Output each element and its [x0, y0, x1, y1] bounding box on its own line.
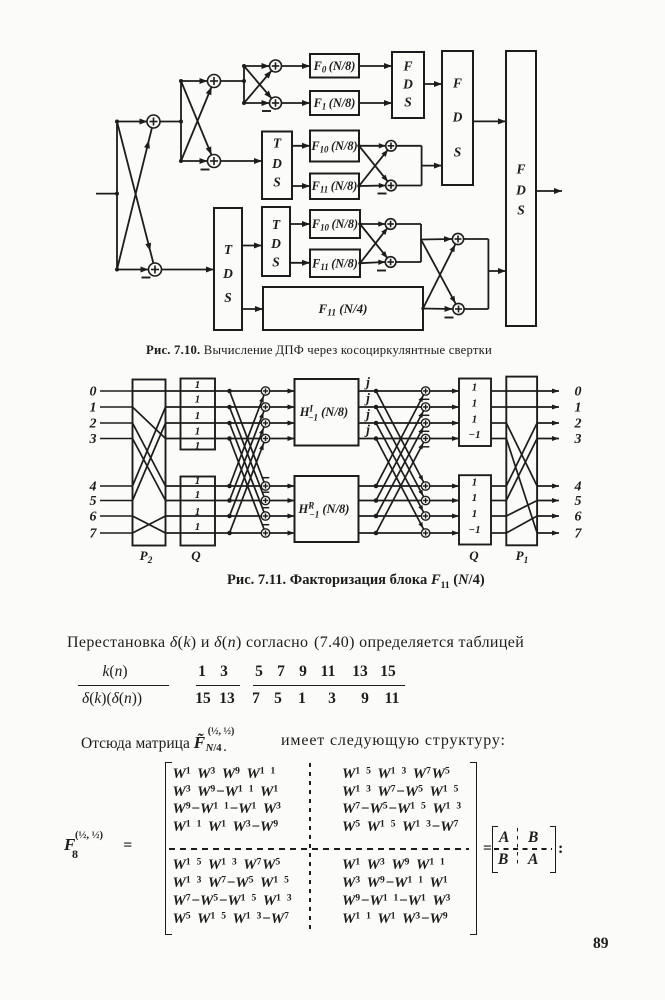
svg-text:P2: P2	[140, 548, 153, 566]
svg-text:1: 1	[195, 410, 201, 422]
svg-text:1: 1	[472, 492, 478, 504]
svg-text:1: 1	[195, 440, 201, 452]
svg-text:S: S	[454, 144, 462, 159]
svg-text:F: F	[402, 58, 412, 73]
svg-text:HI−1 (N/8): HI−1 (N/8)	[299, 404, 348, 423]
svg-text:1: 1	[195, 379, 201, 391]
svg-text:4: 4	[89, 480, 97, 495]
svg-text:6: 6	[575, 510, 582, 525]
svg-text:P1: P1	[516, 548, 529, 566]
svg-text:S: S	[273, 174, 281, 189]
svg-text:2: 2	[574, 417, 582, 432]
svg-text:7: 7	[575, 527, 583, 542]
svg-text:F11 (N/4): F11 (N/4)	[318, 301, 368, 319]
svg-text:Q: Q	[469, 548, 479, 563]
svg-text:7: 7	[90, 527, 98, 542]
svg-text:D: D	[222, 266, 233, 281]
svg-text:3: 3	[574, 432, 582, 447]
svg-text:D: D	[270, 236, 281, 251]
svg-text:6: 6	[90, 510, 97, 525]
svg-text:2: 2	[89, 417, 97, 432]
svg-text:S: S	[404, 94, 412, 109]
svg-text:Q: Q	[191, 548, 201, 563]
svg-text:−1: −1	[468, 524, 480, 536]
svg-text:F: F	[515, 161, 525, 176]
svg-text:4: 4	[574, 480, 582, 495]
svg-text:S: S	[272, 254, 280, 269]
svg-text:0: 0	[90, 385, 97, 400]
svg-text:1: 1	[472, 398, 478, 410]
svg-text:1: 1	[575, 401, 582, 416]
svg-text:1: 1	[195, 521, 201, 533]
svg-text:F11 (N/8): F11 (N/8)	[311, 179, 358, 195]
svg-text:S: S	[517, 202, 525, 217]
svg-text:j: j	[364, 391, 370, 406]
svg-text:S: S	[224, 290, 232, 305]
svg-text:F10 (N/8): F10 (N/8)	[310, 139, 357, 155]
svg-text:j: j	[364, 422, 370, 437]
svg-text:5: 5	[575, 494, 582, 509]
svg-text:F10 (N/8): F10 (N/8)	[311, 217, 358, 233]
svg-text:D: D	[271, 156, 282, 171]
svg-text:1: 1	[472, 508, 478, 520]
svg-text:1: 1	[195, 506, 201, 518]
svg-text:D: D	[515, 182, 526, 197]
svg-text:1: 1	[195, 489, 201, 501]
svg-text:1: 1	[472, 477, 478, 489]
svg-text:3: 3	[89, 432, 97, 447]
svg-text:j: j	[364, 375, 370, 390]
svg-text:D: D	[402, 76, 413, 91]
svg-text:F0 (N/8): F0 (N/8)	[313, 59, 356, 75]
svg-text:F11 (N/8): F11 (N/8)	[311, 256, 358, 272]
svg-text:D: D	[452, 109, 463, 124]
svg-text:1: 1	[195, 426, 201, 438]
svg-text:T: T	[224, 242, 233, 257]
svg-text:T: T	[272, 217, 281, 232]
svg-text:F1 (N/8): F1 (N/8)	[313, 96, 356, 112]
svg-text:F: F	[452, 75, 462, 90]
svg-text:1: 1	[472, 382, 478, 394]
svg-text:1: 1	[195, 475, 201, 487]
svg-text:1: 1	[195, 394, 201, 406]
svg-text:HR−1 (N/8): HR−1 (N/8)	[298, 501, 350, 520]
svg-text:j: j	[364, 407, 370, 422]
svg-text:0: 0	[575, 385, 582, 400]
svg-text:1: 1	[90, 401, 97, 416]
svg-text:1: 1	[472, 414, 478, 426]
svg-text:−1: −1	[468, 429, 480, 441]
svg-text:T: T	[273, 135, 282, 150]
svg-text:5: 5	[90, 494, 97, 509]
